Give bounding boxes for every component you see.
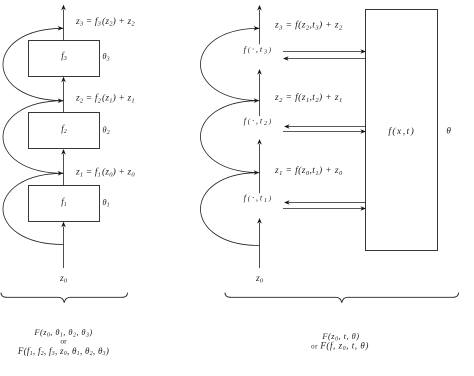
svg-text:θ: θ [446, 125, 451, 135]
box f(x,t) [366, 10, 438, 251]
arrowhead into f3 [61, 77, 66, 83]
arrowhead merge node 2 [58, 98, 64, 103]
wire z0 into f1 [63, 227, 65, 269]
arrowhead into box t2 [360, 129, 366, 134]
arrowhead output z3 right [257, 5, 262, 11]
wire f1 out to f2 [63, 154, 65, 185]
svg-text:or F(f, z0​, t, θ): or F(f, z0​, t, θ) [311, 341, 369, 352]
arrowhead below f(.,t2) [257, 139, 262, 145]
arrowhead return t3 [283, 56, 289, 61]
svg-text:f(·,t1​): f(·,t1​) [244, 192, 273, 204]
box f2 [29, 113, 100, 149]
svg-text:f(·,t2​): f(·,t2​) [244, 115, 273, 127]
skip connection arc 3 (z2) [3, 28, 64, 100]
box f3 [29, 41, 100, 77]
arrowhead merge node 2 right [254, 98, 260, 103]
svg-text:f(x,t): f(x,t) [388, 126, 415, 137]
arrowhead merge node 3 [58, 26, 64, 31]
wire f3 out to z3 [63, 10, 65, 41]
arrowhead merge node 3 right [254, 26, 260, 31]
svg-text:f(·,t3​): f(·,t3​) [244, 44, 273, 56]
svg-text:z3​ = f(z2​,t3​) + z2​: z3​ = f(z2​,t3​) + z2​ [274, 20, 343, 32]
skip connection arc 1 (z0) [3, 173, 64, 244]
ode arc 1 (z0) [200, 173, 259, 246]
ode arc 2 (z1) [200, 101, 259, 173]
arrowhead merge node 1 [58, 171, 64, 176]
wire f2 out to f3 [63, 81, 65, 112]
wire call t2 to box [283, 131, 362, 133]
underbrace left [1, 293, 128, 303]
svg-text:z0​: z0​ [255, 274, 264, 285]
wire call t1 to box [283, 208, 362, 210]
wire return t2 from box [288, 126, 366, 128]
wire t2 to t3 [259, 74, 261, 116]
wire call t3 to box [283, 51, 362, 53]
wire t1 to t2 [259, 144, 261, 193]
arrowhead into f2 [61, 149, 66, 155]
skip connection arc 2 (z1) [3, 101, 64, 174]
arrowhead return t1 [284, 200, 290, 205]
svg-text:or: or [60, 336, 67, 345]
wire return t1 from box [288, 202, 366, 204]
arrowhead into f1 [61, 222, 66, 228]
arrowhead below f(.,t1) [257, 218, 262, 224]
ode arc 3 (z2) [200, 28, 259, 100]
arrowhead merge node 1 right [254, 170, 260, 175]
arrowhead return t2 [284, 124, 290, 129]
svg-text:z3​ = f3​ (z2​) + z2​: z3​ = f3​ (z2​) + z2​ [75, 16, 135, 28]
box f1 [29, 186, 100, 222]
svg-text:z2​ = f2​ (z1​) + z1​: z2​ = f2​ (z1​) + z1​ [75, 93, 135, 105]
wire t3 to z3 out [259, 10, 261, 45]
arrowhead into box t3 [360, 49, 366, 54]
wire return t3 from box [287, 58, 366, 60]
arrowhead output z3 [61, 5, 66, 11]
arrowhead into box t1 [360, 206, 366, 211]
svg-text:z1​ = f(z0​,t1​) + z0​: z1​ = f(z0​,t1​) + z0​ [274, 165, 343, 177]
wire z0 up right [259, 223, 261, 268]
svg-text:z0​: z0​ [59, 274, 68, 285]
svg-text:z1​ = f1​ (z0​) + z0​: z1​ = f1​ (z0​) + z0​ [75, 167, 135, 179]
arrowhead below f(.,t3) [257, 69, 262, 75]
underbrace right [225, 293, 459, 303]
